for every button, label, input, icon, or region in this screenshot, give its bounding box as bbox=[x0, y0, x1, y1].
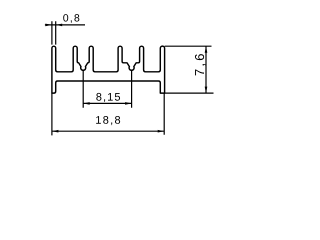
dim 18,8 extension lines bbox=[52, 93, 164, 135]
dim 8,15 extension lines bbox=[83, 71, 131, 108]
value label 7,6 (overall height, rotated) bbox=[195, 54, 206, 75]
dim 7,6 extension lines bbox=[165, 46, 214, 93]
dim 0,8 dimension line bbox=[45, 24, 85, 26]
arrowhead left of dim 8,15 bbox=[83, 102, 90, 105]
arrowhead left of dim 18,8 bbox=[52, 130, 59, 133]
dim 8,15 dimension line bbox=[83, 102, 131, 104]
arrowhead right of dim 8,15 bbox=[125, 102, 132, 105]
arrowhead bottom of dim 7,6 bbox=[205, 87, 208, 94]
dim 18,8 dimension line bbox=[52, 130, 164, 132]
heatsink profile outline bbox=[52, 46, 165, 93]
arrowhead right of dim 0,8 bbox=[56, 24, 63, 27]
value label 8,15 (groove spacing) bbox=[96, 93, 120, 102]
dim 7,6 dimension line bbox=[205, 46, 207, 93]
arrowhead left of dim 0,8 bbox=[45, 24, 52, 27]
value label 18,8 (overall width) bbox=[96, 116, 120, 125]
arrowhead right of dim 18,8 bbox=[158, 130, 165, 133]
value label 0,8 (fin thickness) bbox=[63, 14, 79, 23]
dim 0,8 extension lines bbox=[52, 21, 56, 44]
arrowhead top of dim 7,6 bbox=[205, 46, 208, 53]
